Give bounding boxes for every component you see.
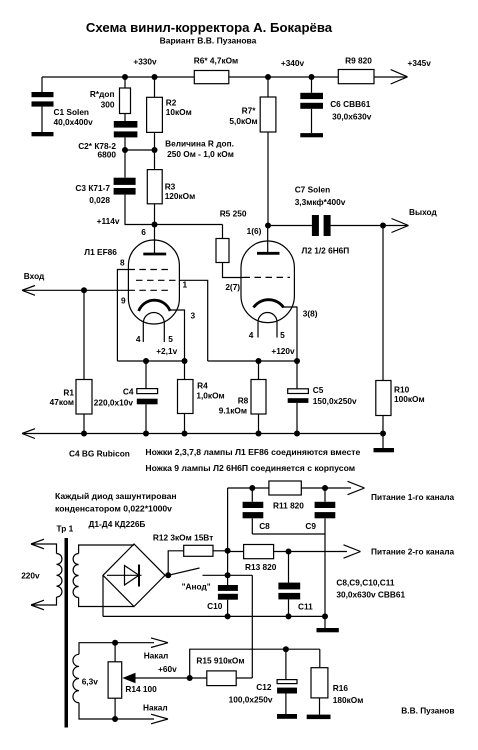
svg-text:Д1-Д4 КД226Б: Д1-Д4 КД226Б (89, 519, 146, 529)
svg-text:1: 1 (182, 280, 187, 290)
svg-text:9: 9 (121, 296, 126, 306)
svg-text:конденсатором 0,022*1000v: конденсатором 0,022*1000v (55, 504, 172, 514)
switch Anod lever (168, 568, 199, 575)
wire R15 right (236, 677, 252, 679)
wire to psu ground (324, 616, 326, 628)
wire secondary bottom to bridge (79, 598, 134, 607)
svg-text:Выход: Выход (409, 207, 437, 217)
node anode L1 pin6 (152, 222, 158, 228)
potentiometer R14 (108, 643, 122, 719)
resistor R4 (178, 361, 194, 434)
wire switch contact (203, 574, 253, 576)
node R14 bottom (112, 716, 118, 722)
node C2-C3 (122, 147, 128, 153)
svg-text:4: 4 (136, 334, 141, 344)
cathode L2 (254, 300, 284, 308)
heater L2 leg4 (257, 322, 259, 338)
node C5 bottom (294, 431, 300, 437)
wire C9 join to ground (324, 534, 326, 616)
node C11 top (286, 549, 292, 555)
svg-text:220v: 220v (21, 570, 40, 580)
wire R13 out (274, 551, 347, 553)
capacitor C1 (32, 77, 54, 132)
svg-text:6,3v: 6,3v (82, 677, 99, 687)
wire R11 feed row (228, 487, 269, 489)
svg-text:R15 910кОм: R15 910кОм (196, 656, 244, 666)
svg-text:5,0кОм: 5,0кОм (229, 116, 257, 126)
node R4 bottom (182, 431, 188, 437)
svg-text:3(8): 3(8) (303, 309, 318, 319)
arrow output (392, 219, 409, 233)
arrow +345v output (391, 70, 408, 84)
ground C6 (300, 133, 323, 137)
svg-text:R14 100: R14 100 (125, 684, 157, 694)
wire heater top (79, 643, 154, 655)
svg-text:R3: R3 (165, 182, 176, 192)
arrow primary top (31, 539, 44, 549)
wire output arrow stem (383, 225, 407, 227)
resistor R1 (76, 290, 92, 433)
node R8 bottom (256, 431, 262, 437)
node R12-R13 (225, 548, 231, 554)
node R10 bottom (380, 431, 386, 437)
svg-text:C8,C9,C10,C11: C8,C9,C10,C11 (336, 578, 394, 588)
resistor R5 (216, 225, 244, 278)
resistor R7 (260, 77, 276, 226)
capacitor C6 (300, 77, 323, 133)
svg-text:C11: C11 (298, 602, 313, 612)
ground C12 (277, 714, 297, 719)
capacitor C11 (278, 552, 300, 617)
arrow heater top (151, 638, 168, 648)
capacitor C3 (114, 150, 136, 225)
svg-text:Питание 1-го канала: Питание 1-го канала (371, 492, 455, 502)
resistor R12 (184, 545, 213, 556)
svg-text:Ножка 9 лампы Л2 6Н6П соединяе: Ножка 9 лампы Л2 6Н6П соединяется с корп… (145, 463, 355, 473)
node input R1 (81, 287, 87, 293)
cathode L1 (139, 300, 170, 311)
svg-text:+120v: +120v (271, 346, 295, 356)
svg-text:"Анод": "Анод" (182, 582, 211, 592)
wire primary top (31, 544, 57, 554)
svg-text:Величина R доп.: Величина R доп. (165, 139, 234, 149)
capacitor C10 (218, 585, 238, 616)
node C8 top (249, 485, 255, 491)
ground R16 (307, 715, 331, 720)
wire anode line down (251, 575, 253, 678)
svg-text:R12 3кОм 15Вт: R12 3кОм 15Вт (153, 533, 213, 543)
node output (380, 223, 386, 229)
resistor R2 (147, 77, 163, 150)
arrow heater bottom (151, 714, 168, 724)
svg-text:Накал: Накал (143, 703, 168, 713)
svg-text:150,0x250v: 150,0x250v (313, 396, 357, 406)
svg-text:+330v: +330v (133, 57, 157, 67)
svg-text:6: 6 (141, 227, 146, 237)
node C11 ground (286, 613, 292, 619)
wire bridge minus down (102, 575, 104, 616)
svg-text:3,3мкф*400v: 3,3мкф*400v (295, 197, 346, 207)
svg-text:4: 4 (249, 330, 254, 340)
grid L1 row1 pin8 (128, 269, 170, 271)
wire R12 to node (213, 550, 228, 552)
wire primary bottom (31, 597, 57, 605)
resistor R11 (269, 481, 301, 495)
svg-text:Вход: Вход (24, 271, 45, 281)
svg-text:8: 8 (120, 258, 125, 268)
wire psu ground row (103, 615, 325, 617)
svg-text:C10: C10 (207, 601, 223, 611)
svg-text:+2,1v: +2,1v (156, 346, 177, 356)
svg-text:C5: C5 (313, 385, 324, 395)
svg-text:C4 BG Rubicon: C4 BG Rubicon (69, 449, 130, 459)
wire C2-R2 join (125, 149, 155, 151)
heater L2 (258, 313, 277, 323)
resistor R15 (207, 671, 236, 686)
svg-text:В.В. Пузанов: В.В. Пузанов (401, 706, 454, 716)
node C4 top (143, 358, 149, 364)
svg-text:Вариант В.В. Пузанова: Вариант В.В. Пузанова (160, 36, 257, 46)
heater L1 (143, 313, 164, 324)
arrow ground bus left (22, 429, 35, 439)
resistor Rdop (120, 77, 131, 121)
resistor R6 (194, 71, 229, 84)
capacitor C12 (277, 649, 297, 714)
svg-text:R8: R8 (238, 396, 249, 406)
svg-text:100,0x250v: 100,0x250v (229, 695, 273, 705)
svg-text:180кОм: 180кОм (333, 695, 364, 705)
svg-text:C12: C12 (256, 682, 272, 692)
bridge rectifier D1-D4 (103, 544, 165, 607)
resistor R9 (338, 70, 374, 84)
node C4 bottom (143, 431, 149, 437)
svg-text:6800: 6800 (98, 150, 117, 160)
svg-text:C4: C4 (123, 387, 134, 397)
wire secondary top to bridge (79, 545, 134, 554)
heater L1 leg4 (142, 323, 144, 342)
heater winding 6.3v (73, 654, 79, 702)
node switch tap (225, 572, 231, 578)
ground main (374, 448, 395, 452)
wire C8 C9 join (252, 533, 325, 535)
wire input (22, 289, 128, 291)
arrow channel1 (348, 481, 365, 494)
resistor R10 (376, 226, 391, 434)
svg-text:R16: R16 (333, 683, 349, 693)
node rail-R7 (265, 74, 271, 80)
node +60v (187, 675, 193, 681)
svg-text:250 Ом - 1,0 кОм: 250 Ом - 1,0 кОм (167, 149, 234, 159)
svg-text:R2: R2 (166, 97, 177, 107)
svg-text:R10: R10 (394, 385, 410, 395)
svg-text:40,0x400v: 40,0x400v (54, 117, 94, 127)
svg-text:Схема винил-корректора А. Бока: Схема винил-корректора А. Бокарёва (86, 20, 333, 35)
svg-text:30,0x630v CBB61: 30,0x630v CBB61 (336, 590, 405, 600)
anode L1 (143, 225, 166, 255)
wire R13 row left (228, 551, 244, 553)
svg-text:2(7): 2(7) (225, 282, 240, 292)
svg-text:100кОм: 100кОм (394, 394, 425, 404)
wire B+ vertical (227, 488, 229, 585)
capacitor C5 (288, 361, 309, 434)
svg-text:R6* 4,7кОм: R6* 4,7кОм (194, 56, 238, 66)
heater L2 leg5 (276, 322, 278, 338)
wire cathode L1 row +2.1v (117, 360, 184, 362)
grid L2 (244, 276, 291, 278)
svg-text:R13 820: R13 820 (245, 562, 277, 572)
node C9 top (322, 485, 328, 491)
svg-text:47ком: 47ком (50, 397, 74, 407)
node R1 bottom (81, 431, 87, 437)
wire wiper (133, 677, 190, 679)
node L2 anode (265, 223, 271, 229)
wire screen row +120v (208, 360, 297, 362)
node C5 top (294, 358, 300, 364)
svg-text:R1: R1 (63, 388, 74, 398)
svg-text:220,0x10v: 220,0x10v (94, 398, 134, 408)
wire rail R6 to R9 (229, 76, 338, 78)
wire top +330v rail (42, 76, 194, 78)
node R14 top (112, 640, 118, 646)
wire bridge plus (165, 574, 168, 576)
svg-text:R5 250: R5 250 (220, 209, 247, 219)
wire heater bottom (79, 703, 154, 719)
node C12 top (283, 646, 289, 652)
primary winding 220v (57, 554, 62, 598)
svg-text:R11 820: R11 820 (273, 501, 304, 511)
svg-text:R7*: R7* (242, 106, 257, 116)
capacitor C8 (243, 488, 264, 534)
resistor R13 (244, 545, 274, 559)
svg-text:Ножки 2,3,7,8 лампы Л1 EF86 со: Ножки 2,3,7,8 лампы Л1 EF86 соединяются … (145, 447, 360, 457)
capacitor C4 (137, 361, 158, 434)
svg-text:C9: C9 (305, 521, 316, 531)
node rail-Rdop (122, 74, 128, 80)
svg-text:Питание 2-го канала: Питание 2-го канала (371, 547, 455, 557)
wire ground bus (22, 433, 383, 435)
svg-text:R9 820: R9 820 (345, 56, 372, 66)
capacitor C7 (312, 215, 331, 236)
svg-text:Л2 1/2 6Н6П: Л2 1/2 6Н6П (302, 246, 350, 256)
svg-text:C3 К71-7: C3 К71-7 (75, 183, 110, 193)
node rail-C6 (309, 74, 315, 80)
arrow wiper R14 (122, 673, 135, 683)
wire +114v row (125, 224, 223, 226)
resistor R8 (251, 361, 266, 434)
node C9 ground (322, 613, 328, 619)
svg-text:0,028: 0,028 (89, 195, 110, 205)
svg-text:+114v: +114v (97, 216, 120, 226)
svg-text:Каждый диод зашунтирован: Каждый диод зашунтирован (55, 491, 177, 501)
wire R15 left (190, 677, 207, 679)
svg-text:300: 300 (101, 100, 115, 110)
wire bridge plus to R12 (168, 551, 184, 576)
wire pin1 exit (179, 280, 207, 361)
grid L1 row2 pin1 (136, 279, 179, 281)
grid L1 row3 pin9 (128, 289, 172, 291)
svg-text:+340v: +340v (281, 58, 305, 68)
tube L1 EF86 envelope (128, 240, 179, 324)
arrow primary bottom (31, 600, 44, 610)
wire R10 to ground (382, 434, 384, 449)
svg-text:+60v: +60v (158, 664, 177, 674)
anode L2 (257, 226, 280, 254)
wire cathode L1 pin3 (169, 310, 185, 361)
svg-text:C6 CBB61: C6 CBB61 (330, 99, 371, 109)
capacitor C9 (315, 488, 336, 534)
resistor R16 (311, 649, 328, 714)
wire R11 out (301, 487, 351, 489)
secondary HV winding (73, 554, 79, 598)
diode symbol (107, 565, 142, 587)
node rail-R2 (152, 74, 158, 80)
svg-text:+345v: +345v (408, 58, 432, 68)
svg-text:9.1кОм: 9.1кОм (219, 406, 247, 416)
capacitor C2 (114, 121, 138, 150)
svg-text:1(6): 1(6) (247, 226, 262, 236)
svg-text:C8: C8 (259, 521, 270, 531)
svg-text:5: 5 (280, 330, 285, 340)
wire output row (268, 225, 312, 227)
wire +60v up and right (190, 649, 320, 678)
node R4 top (182, 358, 188, 364)
resistor R3 (147, 150, 162, 225)
svg-text:1,0кОм: 1,0кОм (196, 391, 224, 401)
svg-text:3: 3 (190, 311, 195, 321)
node anode switch (165, 572, 171, 578)
svg-text:5: 5 (168, 334, 173, 344)
node R2-R3 (152, 147, 158, 153)
node C10 ground (225, 613, 231, 619)
wire C7 to output node (331, 225, 383, 227)
wire rail R9 to arrow (374, 76, 407, 78)
svg-text:C1 Solen: C1 Solen (54, 107, 90, 117)
svg-text:Тр 1: Тр 1 (57, 524, 74, 534)
svg-text:Л1 EF86: Л1 EF86 (84, 247, 117, 257)
svg-text:Накал: Накал (144, 651, 169, 661)
ground psu (317, 628, 339, 632)
arrow input (22, 286, 35, 296)
transformer Tr1 core (65, 538, 69, 728)
svg-text:10кОм: 10кОм (166, 107, 192, 117)
svg-text:C7 Solen: C7 Solen (295, 185, 331, 195)
svg-text:30,0x630v: 30,0x630v (332, 112, 372, 122)
ground C1 (32, 132, 54, 136)
wire pin8 exit (117, 270, 128, 362)
heater L1 leg5 (163, 323, 165, 342)
wire cathode L2 pin3 (283, 307, 297, 361)
svg-text:R*доп: R*доп (90, 89, 115, 99)
tube L2 6N6P envelope (241, 241, 294, 323)
svg-text:R4: R4 (197, 381, 208, 391)
node R8 top (256, 358, 262, 364)
svg-text:120кОм: 120кОм (165, 191, 196, 201)
arrow channel2 (344, 545, 361, 558)
